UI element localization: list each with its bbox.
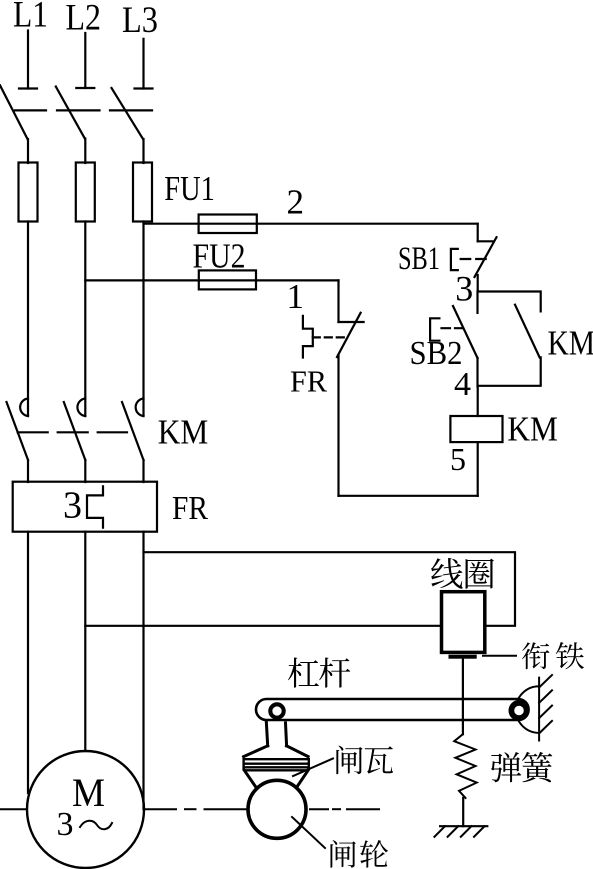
wire 2 drop to SB1	[477, 224, 479, 242]
motor tilde	[80, 821, 112, 830]
wire 1	[85, 279, 338, 281]
wire control return	[339, 495, 478, 497]
ground	[440, 825, 487, 827]
switch QS pole2 fixed contact	[76, 87, 94, 89]
shoe flare	[244, 746, 309, 757]
wire KM main 3 lower	[142, 460, 144, 482]
switch QS pole3 blade	[112, 88, 144, 139]
switch QS pole2 blade	[56, 87, 85, 139]
wire 1 drop to FR	[337, 280, 339, 322]
fuse FU2b	[199, 270, 256, 289]
svg-text:KM: KM	[548, 323, 593, 362]
armature pointer	[483, 655, 516, 657]
wire motor phase3	[142, 532, 144, 809]
svg-text:FU1: FU1	[164, 169, 215, 208]
shoe stem	[266, 722, 286, 746]
coil KM	[450, 416, 502, 442]
wire L2 drop	[84, 33, 86, 88]
wire phase1	[27, 222, 29, 417]
fuse FU2a	[199, 215, 257, 234]
wire FR to return	[337, 355, 339, 496]
wire 2	[144, 223, 478, 225]
brake coil box	[442, 592, 485, 653]
fuse FU1 pole2	[76, 163, 95, 222]
wire brake feeder A	[144, 552, 516, 626]
svg-text:SB1: SB1	[398, 241, 440, 277]
shoe pad	[244, 758, 309, 770]
button SB1 actuator	[451, 249, 458, 270]
wire L1 drop	[27, 31, 29, 89]
armature plate	[448, 652, 478, 654]
label xiantie	[522, 642, 549, 669]
label tanhuang	[491, 752, 521, 782]
button SB1 actuator link dashed	[461, 258, 487, 260]
axis centerline	[0, 808, 27, 810]
svg-text:M: M	[72, 770, 105, 815]
spring	[454, 734, 477, 798]
motor M circle	[27, 751, 144, 868]
svg-text:1: 1	[287, 277, 305, 316]
wire motor phase2	[84, 532, 86, 751]
svg-text:KM: KM	[507, 409, 558, 448]
contact KM main 3 arc	[136, 399, 144, 417]
button SB1 blade	[475, 237, 497, 277]
svg-text:3: 3	[455, 269, 473, 309]
wire node3 to SB2	[476, 292, 478, 313]
button SB2 actuator	[430, 318, 439, 340]
wire brake feeder B	[85, 625, 441, 627]
lever bar	[256, 699, 529, 720]
wire node3 to KM aux	[478, 292, 541, 312]
svg-text:L1: L1	[13, 0, 48, 35]
svg-text:2: 2	[287, 183, 305, 222]
svg-text:FU2: FU2	[193, 237, 246, 276]
wheel pointer	[292, 817, 325, 848]
lever left pivot	[270, 704, 283, 717]
svg-text:FR: FR	[172, 490, 208, 527]
relay FR box	[13, 482, 157, 532]
shoe pointer	[293, 759, 333, 777]
label zhawa	[336, 746, 362, 775]
lever right pivot	[511, 703, 526, 718]
label xianquan	[431, 558, 463, 589]
contact FR thermal element	[303, 316, 313, 358]
spring rod lower	[462, 798, 464, 826]
fuse FU1 pole1	[19, 163, 38, 222]
ground hatching	[434, 826, 445, 837]
wire phase3	[142, 222, 144, 417]
switch QS linkage dashed	[15, 109, 152, 111]
button SB2 actuator link dashed	[442, 327, 464, 329]
label ganggan	[288, 658, 319, 688]
wire SB2 to node4	[476, 358, 478, 387]
contact KM main 1 blade	[7, 402, 29, 460]
wire KM main 2 lower	[84, 460, 86, 482]
svg-text:4: 4	[454, 366, 471, 403]
switch QS pole1 blade	[0, 85, 28, 139]
mount wall	[538, 678, 540, 741]
wire KM main 1 lower	[27, 460, 29, 482]
fuse FU1 pole3	[133, 163, 152, 222]
button SB2 blade	[453, 306, 478, 358]
contact KM main 2 blade	[64, 402, 86, 460]
relay FR heater glyph	[87, 486, 103, 527]
contact FR fixed bar	[339, 321, 364, 323]
contact KM main 2 arc	[77, 399, 85, 417]
wire pole2 to fuse	[84, 139, 86, 164]
svg-text:5: 5	[450, 441, 466, 477]
svg-text:3: 3	[57, 806, 74, 843]
mount arc	[516, 686, 539, 733]
wire L3 drop	[142, 39, 144, 89]
wire SB1 to node3	[477, 275, 479, 292]
svg-text:3: 3	[63, 485, 82, 527]
svg-text:FR: FR	[290, 364, 327, 399]
contact KM main 1 arc	[20, 399, 28, 417]
svg-text:KM: KM	[158, 413, 209, 452]
brake wheel	[248, 780, 306, 838]
wire pole3 to fuse	[142, 139, 144, 163]
wire KM aux to node4	[478, 357, 541, 385]
svg-text:L3: L3	[122, 0, 158, 41]
shoe wrap	[244, 770, 308, 788]
svg-text:L2: L2	[66, 0, 102, 39]
switch QS pole1 fixed contact	[19, 87, 37, 89]
switch QS pole3 fixed contact	[135, 87, 153, 89]
contact KM main 3 blade	[122, 402, 144, 460]
contact KM aux blade	[515, 305, 540, 358]
mount hatching	[539, 675, 552, 688]
wire phase2	[84, 222, 86, 417]
button SB1 fixed bar	[478, 240, 493, 242]
wire node4 to coil	[477, 387, 479, 416]
contact FR blade	[337, 313, 361, 357]
armature rod	[462, 659, 464, 735]
wire coil to node5	[477, 442, 479, 496]
contact KM main linkage dashed	[18, 431, 127, 433]
label zhalun	[330, 840, 355, 868]
contact FR link dashed	[313, 336, 344, 338]
wire motor phase1	[27, 532, 29, 793]
wire pole1 to fuse	[27, 139, 29, 163]
